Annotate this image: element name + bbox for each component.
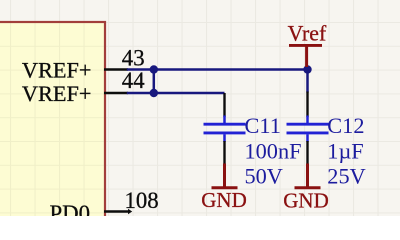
wire: pin43 to Vref node <box>127 68 308 71</box>
svg-text:VREF+: VREF+ <box>22 81 92 106</box>
svg-text:44: 44 <box>122 68 145 93</box>
capacitor C11 <box>204 93 246 165</box>
pin 43 line <box>104 68 128 70</box>
node Vref power port <box>288 21 327 67</box>
ground GND under C12 <box>283 164 329 213</box>
IC U? body fill <box>0 22 105 228</box>
junction at pin43/vertical tie <box>150 65 158 73</box>
wire: vertical tie between pin43 and pin44 nets <box>153 70 156 94</box>
svg-text:GND: GND <box>283 189 329 213</box>
svg-text:VREF+: VREF+ <box>22 58 92 83</box>
svg-text:1µF: 1µF <box>327 138 363 163</box>
svg-text:50V: 50V <box>245 163 283 188</box>
svg-text:43: 43 <box>122 45 145 70</box>
svg-text:100nF: 100nF <box>245 138 302 163</box>
svg-text:C12: C12 <box>327 113 364 138</box>
svg-text:GND: GND <box>201 188 247 212</box>
svg-text:108: 108 <box>125 188 159 213</box>
svg-text:PD0: PD0 <box>49 201 90 216</box>
wire: pin44 to C11 <box>127 92 225 95</box>
IC U? body border <box>0 22 105 228</box>
pin 44 line <box>104 92 128 94</box>
ground GND under C11 <box>201 164 247 213</box>
svg-text:C11: C11 <box>245 113 281 138</box>
junction at pin44/vertical tie <box>150 89 158 97</box>
svg-text:Vref: Vref <box>288 21 327 45</box>
capacitor C12 <box>287 92 329 165</box>
wire: Vref node down to C12 <box>306 70 309 93</box>
svg-text:25V: 25V <box>327 163 365 188</box>
pin 108 line <box>104 209 132 215</box>
junction at Vref node <box>303 65 311 73</box>
